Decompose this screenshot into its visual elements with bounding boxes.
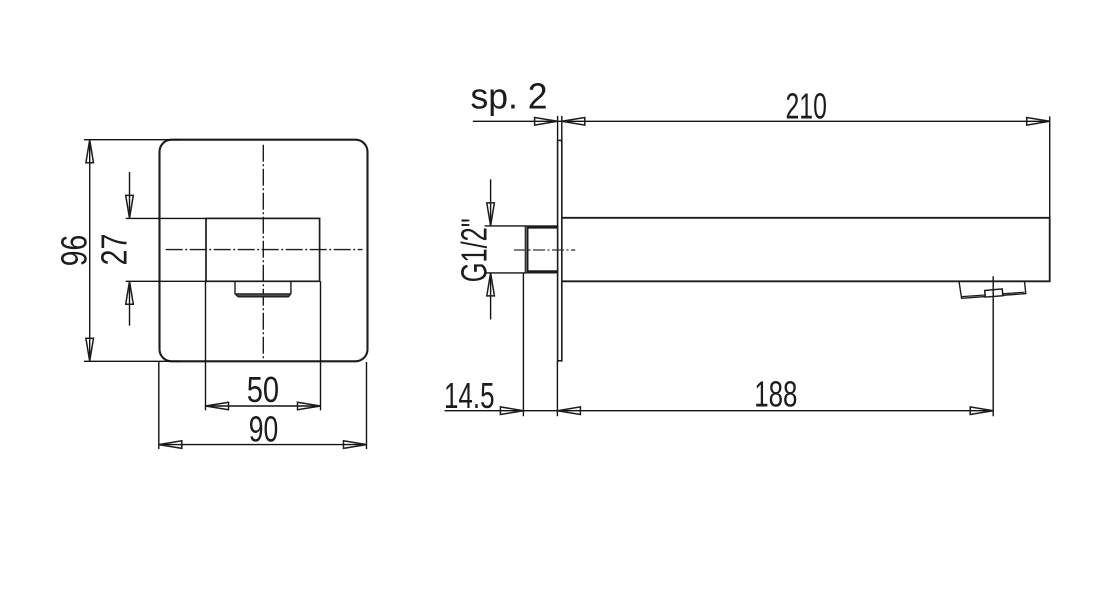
- svg-text:90: 90: [249, 409, 279, 450]
- dim G12 upper dimension line: [490, 179, 492, 226]
- dim G12 arrow down: [487, 203, 495, 226]
- dim 50 arrow left: [206, 402, 229, 410]
- dim 90 dimension line: [159, 444, 367, 446]
- dim 210 arrow left at plate right face: [562, 118, 585, 126]
- dim G12 top extension line: [485, 225, 526, 227]
- dim 96 bottom extension line: [84, 360, 182, 362]
- dim sp2 arrow right at plate left face: [535, 118, 558, 126]
- svg-text:sp. 2: sp. 2: [471, 76, 548, 117]
- dim 50 left extension line: [205, 281, 207, 410]
- dim 50 dimension line: [206, 405, 321, 407]
- dim 188 right extension line at aerator: [992, 276, 994, 416]
- dim 90 arrow right: [344, 441, 367, 449]
- dim 27 top extension line: [126, 217, 206, 219]
- front view vertical centerline: [262, 145, 264, 359]
- front view spout body rectangle: [206, 218, 320, 281]
- dim 90 arrow left: [159, 441, 182, 449]
- dim 96 top extension line: [84, 139, 182, 141]
- dim 27 upper dimension line: [129, 172, 131, 218]
- side view connector centerline: [514, 249, 575, 251]
- side view thread connector outer outline: [525, 226, 557, 273]
- dim 188 arrow left: [557, 407, 580, 415]
- side view aerator outline: [959, 281, 1026, 298]
- dim 210 right extension line: [1049, 116, 1051, 217]
- dim 27 arrow down: [126, 195, 134, 218]
- dim 27 bottom extension line: [126, 280, 206, 282]
- dim 50 right extension line: [320, 281, 322, 410]
- side view plate extension lines above: [558, 116, 562, 140]
- svg-text:27: 27: [93, 234, 134, 266]
- side view spout body: [562, 218, 1050, 281]
- dim 90 left extension line: [158, 362, 160, 449]
- dim G12 lower dimension line: [490, 273, 492, 320]
- dim 96 arrow down: [86, 338, 94, 361]
- dim 90 right extension line: [366, 362, 368, 449]
- front view aerator dark band: [235, 294, 291, 297]
- dim 96 arrow up: [86, 140, 94, 163]
- front view aerator outline: [235, 281, 291, 297]
- dim 14.5 188 dimension line: [445, 410, 994, 412]
- front view aerator inner line: [235, 293, 291, 295]
- svg-text:210: 210: [786, 86, 827, 127]
- svg-text:14.5: 14.5: [444, 375, 495, 416]
- side view wall plate: [558, 140, 562, 360]
- dim 50 arrow right: [298, 402, 321, 410]
- svg-text:96: 96: [54, 235, 95, 267]
- side view aerator inner line: [962, 292, 1025, 296]
- dim 210 arrow right at spout end: [1027, 118, 1050, 126]
- dim 14.5 extension line at connector end: [522, 274, 524, 417]
- front view horizontal centerline: [166, 249, 363, 251]
- side view aerator insert rectangle: [985, 289, 1003, 297]
- dim 14.5 arrow right: [500, 407, 523, 415]
- dim G12 arrow up: [487, 273, 495, 296]
- dim 96 dimension line: [89, 140, 91, 362]
- dim 27 arrow up: [126, 281, 134, 304]
- dim 27 lower dimension line: [129, 281, 131, 325]
- dim G12 bottom extension line: [485, 272, 526, 274]
- svg-text:50: 50: [247, 369, 279, 410]
- dim 188 arrow right: [970, 407, 993, 415]
- svg-text:188: 188: [754, 374, 797, 415]
- dim 188 left extension line below plate: [556, 361, 558, 416]
- side view thread connector thick outline: [527, 228, 557, 272]
- svg-text:G1/2": G1/2": [454, 218, 495, 282]
- front view faceplate outline: [160, 140, 368, 362]
- dim sp2 210 dimension line: [473, 120, 1050, 122]
